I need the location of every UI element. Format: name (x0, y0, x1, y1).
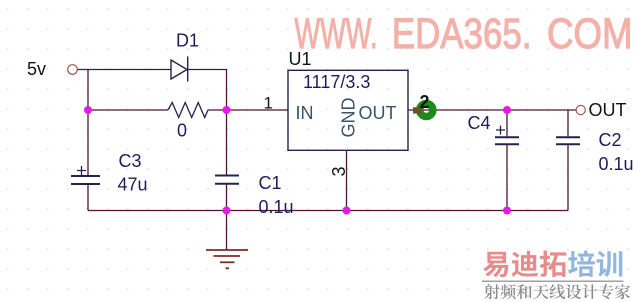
svg-text:0.1u: 0.1u (599, 154, 634, 174)
terminal 5v (68, 65, 78, 75)
resistor 0 ohm (168, 103, 208, 118)
junction GND pin bus (343, 207, 351, 215)
capacitor C3 (71, 176, 100, 184)
svg-text:3: 3 (329, 166, 349, 176)
ground symbol (206, 250, 248, 268)
svg-text:1117/3.3: 1117/3.3 (303, 72, 370, 92)
wire: 5v terminal to diode anode (78, 69, 172, 71)
capacitor C1 (215, 176, 239, 184)
logo underline (482, 280, 624, 282)
svg-text:GND: GND (339, 98, 359, 138)
svg-text:1: 1 (264, 94, 273, 113)
op-amp U1 regulator box (288, 70, 408, 150)
svg-text:D1: D1 (176, 31, 199, 51)
C3 plus sign (77, 166, 86, 175)
svg-text:C4: C4 (468, 113, 491, 133)
svg-text:OUT: OUT (589, 100, 627, 120)
wire: diode cathode to top-right corner, down to node (188, 70, 227, 111)
terminal OUT (576, 105, 585, 114)
node A junction (84, 106, 92, 114)
wire: C4 branch from node down (506, 110, 508, 136)
capacitor C2 (556, 137, 580, 144)
logo 易迪拓培训 (483, 250, 622, 277)
svg-text:IN: IN (296, 103, 314, 123)
svg-text:EDA365.: EDA365. (392, 11, 532, 58)
diode D1 (171, 57, 188, 82)
svg-text:0.1u: 0.1u (259, 197, 294, 217)
svg-text:C3: C3 (119, 151, 142, 171)
junction blob at ring left (413, 107, 422, 113)
wire: C1 branch vertical from node (226, 110, 228, 175)
C4 plus sign (496, 126, 505, 135)
svg-text:47u: 47u (118, 175, 148, 195)
wire: C2 bottom to bus corner (567, 145, 569, 211)
svg-text:COM: COM (547, 11, 633, 58)
junction resistor/diode right (223, 106, 231, 114)
wire: C1 bottom to ground bus (226, 184, 228, 210)
capacitor C4 (495, 137, 519, 144)
junction C4 bottom (503, 207, 511, 215)
wire: C4 bottom to bus (506, 145, 508, 211)
wire: U1 OUT pin to OUT terminal (408, 109, 576, 111)
svg-text:C1: C1 (259, 173, 282, 193)
logo subtitle 射频和天线设计专家 (484, 284, 630, 299)
wire: ground stem (226, 211, 228, 250)
svg-text:C2: C2 (599, 130, 622, 150)
junction C4 top (503, 106, 511, 114)
svg-text:OUT: OUT (359, 103, 397, 123)
wire: C2 branch from out rail down (567, 110, 569, 136)
svg-text:5v: 5v (27, 59, 46, 79)
svg-text:2: 2 (420, 92, 430, 112)
svg-text:U1: U1 (289, 49, 312, 69)
wire: C3 bottom to ground bus (87, 185, 89, 211)
wire: U1 GND pin 3 down to bus (346, 150, 348, 210)
wire: ground bus (88, 210, 568, 212)
wire: left vertical 5v rail down to C3 top (87, 70, 89, 176)
wire: node A to resistor left (88, 109, 168, 111)
junction C1/ground (223, 207, 231, 215)
green net marker on pin 2 (420, 103, 433, 116)
wire: resistor right to U1 IN pin (208, 109, 288, 111)
svg-text:0: 0 (177, 121, 187, 141)
